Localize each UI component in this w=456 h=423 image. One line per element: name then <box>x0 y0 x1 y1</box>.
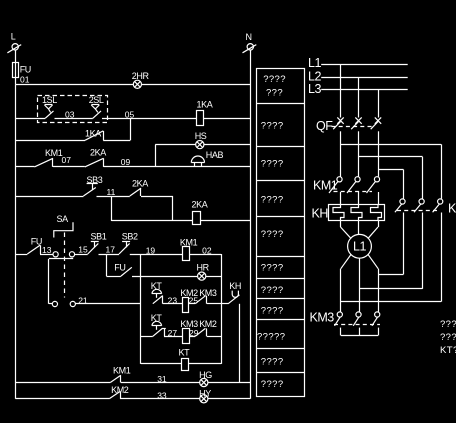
selector switch SA handle <box>54 214 73 238</box>
bell HAB <box>191 150 223 167</box>
contactor coil KM2 <box>180 288 198 313</box>
wire junction up to node 05 <box>130 118 132 140</box>
wire <box>207 303 221 305</box>
lamp 2HR <box>132 71 150 88</box>
wire KM2 pole3 out <box>441 213 443 302</box>
svg-text:????: ???? <box>261 285 284 296</box>
wire <box>204 118 251 120</box>
svg-text:2KA: 2KA <box>132 179 148 189</box>
phase L3 <box>308 82 408 96</box>
contact KM1 NO <box>34 148 62 167</box>
svg-text:L1: L1 <box>308 56 321 70</box>
wire KM2 pole2 out <box>422 213 424 289</box>
wire <box>142 84 251 86</box>
legend text rows <box>257 74 286 390</box>
contact 1KA (self-hold) <box>15 128 130 140</box>
thermal contact KH NC <box>221 281 241 304</box>
lamp HY <box>199 389 211 403</box>
wire <box>341 301 441 303</box>
svg-text:03: 03 <box>65 109 75 119</box>
wire KM2 pole1 out <box>403 213 405 275</box>
svg-text:2SL: 2SL <box>89 95 104 105</box>
svg-text:????: ???? <box>261 229 284 240</box>
fuse-switch FU row13 <box>27 237 42 255</box>
wire row SB3 <box>15 196 83 198</box>
wire <box>141 196 173 198</box>
side note text <box>440 319 456 356</box>
svg-text:N: N <box>246 32 252 42</box>
contact KM2 NO (HY row) <box>109 385 129 399</box>
svg-text:L1: L1 <box>353 240 366 254</box>
wire <box>189 363 221 365</box>
svg-text:FU: FU <box>114 262 125 272</box>
wire <box>102 118 197 120</box>
wire junction drop at 11 <box>111 196 113 221</box>
svg-text:2KA: 2KA <box>90 148 106 158</box>
svg-text:????: ???? <box>261 379 284 390</box>
phase L1 <box>308 56 408 70</box>
SA linkage dashed <box>64 233 66 298</box>
svg-text:????: ???? <box>261 159 284 170</box>
wire <box>53 166 85 168</box>
svg-text:KM1: KM1 <box>180 237 198 247</box>
limit switch 1SL <box>42 95 57 119</box>
wire KM1 to KH <box>341 192 379 205</box>
contact KM3 NC <box>189 288 217 304</box>
svg-text:????: ???? <box>261 121 284 132</box>
wire <box>75 254 88 256</box>
svg-text:?????: ????? <box>257 332 285 343</box>
contactor KM1 main contacts <box>313 177 380 193</box>
svg-text:11: 11 <box>107 187 116 197</box>
svg-text:KM3: KM3 <box>199 288 217 298</box>
wire star point <box>341 328 379 336</box>
contact KM2 NC <box>189 319 217 337</box>
svg-text:????: ???? <box>261 263 284 274</box>
svg-text:HAB: HAB <box>206 150 224 160</box>
svg-text:????: ???? <box>440 332 456 343</box>
svg-text:17: 17 <box>106 244 116 254</box>
svg-text:1SL: 1SL <box>42 95 57 105</box>
wire row 01 <box>15 84 133 86</box>
wire <box>99 254 120 256</box>
svg-text:????: ???? <box>440 319 456 330</box>
wire bottom row KT <box>141 363 182 365</box>
wire <box>104 166 251 168</box>
lamp HS <box>195 131 207 149</box>
wire drop <box>172 196 174 221</box>
svg-text:HR: HR <box>197 262 210 272</box>
svg-text:05: 05 <box>125 109 135 119</box>
svg-text:????: ???? <box>263 74 286 85</box>
wire FU2 row <box>106 276 121 278</box>
svg-text:KM2: KM2 <box>448 202 456 216</box>
contactor coil KM1 <box>180 237 198 260</box>
wire coil row <box>112 220 194 222</box>
SA bridge bar <box>49 258 73 260</box>
svg-text:01: 01 <box>20 74 30 84</box>
wire <box>208 398 250 400</box>
timer coil KT <box>179 347 191 370</box>
wire KH to HG row <box>239 304 241 383</box>
wire <box>55 118 93 120</box>
svg-text:09: 09 <box>121 157 131 167</box>
wire <box>130 254 182 256</box>
wire <box>208 382 250 384</box>
pushbutton SB1 <box>88 231 107 254</box>
N bus wire <box>250 50 252 399</box>
wire QF to KM1 <box>341 131 379 176</box>
timed contact KT NO <box>151 281 163 304</box>
svg-text:HS: HS <box>195 131 207 141</box>
wire <box>120 398 200 400</box>
contactor KM2 delta contacts <box>395 199 456 216</box>
svg-text:????: ???? <box>261 356 284 367</box>
contactor KM3 star contacts <box>310 311 381 326</box>
pushbutton SB3 <box>83 175 102 196</box>
relay coil 2KA <box>192 200 208 225</box>
wire right rail <box>221 254 223 364</box>
svg-text:???: ??? <box>266 87 283 98</box>
wire <box>204 144 250 146</box>
terminal L <box>7 32 21 63</box>
SA contact pair 2 <box>49 301 76 306</box>
legend table <box>256 69 304 397</box>
wire row 07 <box>15 166 34 168</box>
wire <box>206 276 221 278</box>
svg-text:1KA: 1KA <box>197 100 213 110</box>
svg-text:2HR: 2HR <box>132 71 150 81</box>
svg-text:KT??: KT?? <box>440 345 456 356</box>
wire <box>207 336 221 338</box>
wire row 33 <box>15 398 109 400</box>
wire <box>97 196 130 198</box>
pushbutton SB2 <box>119 231 138 254</box>
wire <box>40 254 53 256</box>
svg-text:SB2: SB2 <box>122 231 138 241</box>
svg-text:FU: FU <box>20 64 31 74</box>
svg-text:FU: FU <box>31 237 42 247</box>
fuse FU1 <box>13 62 31 84</box>
phase L2 <box>308 69 408 83</box>
contactor coil KM3 <box>180 319 198 344</box>
wire branch HS <box>155 145 157 167</box>
wire motor to KM3 <box>341 254 379 312</box>
timed contact KT NC <box>151 313 166 336</box>
svg-text:13: 13 <box>42 245 52 255</box>
thermal overload KH <box>312 205 385 221</box>
wire <box>163 303 182 305</box>
wire <box>200 220 250 222</box>
wire <box>378 274 403 276</box>
svg-text:KH: KH <box>229 281 241 291</box>
svg-text:KT: KT <box>179 347 191 357</box>
wire drops to QF <box>341 64 379 117</box>
contact 2KA NO <box>85 148 106 167</box>
lamp HG <box>199 370 212 386</box>
svg-text:KM3: KM3 <box>310 311 335 325</box>
wire <box>189 254 221 256</box>
svg-text:????: ???? <box>261 195 284 206</box>
dashed enclosure 1SL/2SL <box>38 96 108 123</box>
svg-text:07: 07 <box>62 155 72 165</box>
relay coil 1KA <box>197 100 213 126</box>
svg-text:KM1: KM1 <box>45 148 63 158</box>
wire left rail <box>140 254 142 364</box>
contact 2KA NO (row 11) <box>130 179 148 197</box>
wire row 27 <box>141 336 153 338</box>
svg-text:SB1: SB1 <box>91 231 107 241</box>
wire branch to KM2 top <box>341 144 442 199</box>
wire row 13 <box>15 254 27 256</box>
limit switch 2SL <box>89 95 104 119</box>
svg-text:KH: KH <box>312 207 329 221</box>
svg-text:L3: L3 <box>308 82 321 96</box>
svg-text:2KA: 2KA <box>192 200 208 210</box>
svg-text:????: ???? <box>261 306 284 317</box>
wire <box>15 118 45 120</box>
SA contact pair 1 <box>53 252 75 257</box>
wire drop SA <box>48 259 50 304</box>
lamp HR <box>197 262 210 280</box>
contact KM1 NO (HG row) <box>110 366 130 383</box>
breaker QF <box>316 117 381 133</box>
motor L1 <box>348 234 372 258</box>
left bus wire <box>15 84 17 399</box>
wire <box>121 382 200 384</box>
svg-text:QF: QF <box>316 119 333 133</box>
wire row 31 <box>15 382 110 384</box>
svg-text:SA: SA <box>57 214 69 224</box>
svg-text:15: 15 <box>78 245 88 255</box>
svg-text:KM2: KM2 <box>199 319 217 329</box>
wire <box>164 336 182 338</box>
wire <box>360 288 423 290</box>
wire <box>132 276 198 278</box>
wire <box>75 303 141 305</box>
fuse-switch FU2 <box>114 262 132 276</box>
svg-text:L: L <box>11 32 16 42</box>
svg-text:KM1: KM1 <box>113 366 131 376</box>
wire KH to motor <box>341 220 379 239</box>
terminal N <box>243 32 257 53</box>
wire drop at 17 <box>106 254 108 276</box>
